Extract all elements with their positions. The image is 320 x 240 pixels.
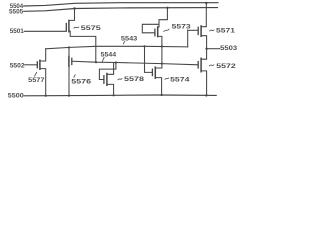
svg-text:5577: 5577 <box>28 77 44 84</box>
node junction dot output 5503 <box>205 48 207 50</box>
label lead squiggle 5571 <box>210 30 215 31</box>
svg-text:5574: 5574 <box>170 77 190 84</box>
wire rail 5505 <box>24 8 218 12</box>
svg-text:5502: 5502 <box>10 62 25 69</box>
node junction dot on 5505 at 5575 drain <box>73 7 75 9</box>
transistor 5572 <box>198 49 206 96</box>
node junction dot 5543/5574 gate <box>143 45 145 47</box>
svg-text:5572: 5572 <box>216 63 236 70</box>
wire 5501 gate line <box>24 30 66 32</box>
node junction dot rail/5578 <box>113 94 115 96</box>
node junction dot 5544/5574 drain <box>161 63 163 65</box>
svg-text:5503: 5503 <box>220 45 237 52</box>
svg-text:5578: 5578 <box>124 76 144 83</box>
transistor 5576 <box>69 47 72 95</box>
wire 5502 gate line <box>25 64 37 66</box>
label lead squiggle 5572 <box>209 65 214 66</box>
node junction dot on 5505 at 5573 drain <box>166 7 168 9</box>
svg-text:5573: 5573 <box>172 23 191 30</box>
transistor 5573 <box>142 8 167 64</box>
svg-text:5571: 5571 <box>216 27 235 34</box>
node junction dot 5543/5576 <box>68 46 70 48</box>
node junction dot rail/5574 <box>161 94 163 96</box>
label lead 5576 <box>74 75 75 78</box>
label lead squiggle 5575 <box>74 27 79 28</box>
label lead 5577 <box>35 72 37 76</box>
label lead squiggle 5578 <box>118 79 122 80</box>
transistor 5575 <box>66 9 96 63</box>
wire output node 5503 lead <box>207 48 220 50</box>
svg-text:5505: 5505 <box>9 9 23 16</box>
svg-text:5575: 5575 <box>81 25 101 32</box>
transistor 5577 <box>37 49 45 96</box>
svg-text:5501: 5501 <box>10 28 24 35</box>
node junction dot 5544/5575 source <box>95 61 97 63</box>
node junction dot on 5504 at 5571 drain <box>205 2 207 4</box>
wire node 5544 <box>73 61 198 65</box>
label lead 5544 <box>102 57 104 61</box>
wire rail 5500 (bottom) <box>24 94 216 97</box>
node junction dot rail/5577 <box>45 95 47 97</box>
transistor 5578 <box>99 63 116 96</box>
svg-text:5500: 5500 <box>8 92 24 99</box>
wire node 5543 <box>46 46 188 49</box>
svg-text:5576: 5576 <box>71 78 91 85</box>
transistor 5574 <box>145 46 162 95</box>
node junction dot 5544/5578 <box>115 61 117 63</box>
label lead squiggle 5574 <box>165 78 169 79</box>
node junction dot rail/5576 <box>68 95 70 97</box>
svg-text:5544: 5544 <box>101 52 117 59</box>
svg-text:5543: 5543 <box>121 35 138 42</box>
node junction dot rail/5572 <box>205 94 207 96</box>
label lead 5543 <box>123 41 125 44</box>
node junction dot 5543/5573 source <box>161 45 163 47</box>
transistor 5571 <box>188 3 207 49</box>
label lead squiggle 5573 <box>164 29 169 32</box>
wire rail 5504 <box>24 3 218 6</box>
